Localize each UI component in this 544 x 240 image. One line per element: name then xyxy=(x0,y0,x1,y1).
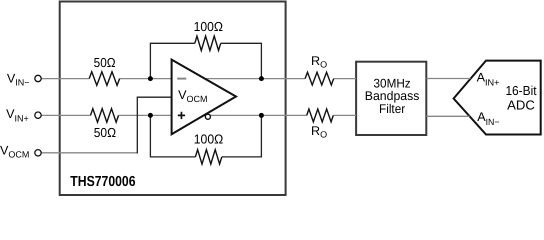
filter text 30MHz Bandpass Filter xyxy=(365,77,420,116)
wire VIN- input rail xyxy=(41,78,89,80)
label RO top xyxy=(311,54,327,69)
ADC text 16-Bit ADC xyxy=(505,83,536,113)
svg-text:100Ω: 100Ω xyxy=(194,19,224,34)
svg-text:16-Bit: 16-Bit xyxy=(505,83,536,98)
resistor RO bottom xyxy=(307,109,334,122)
label VIN- xyxy=(7,71,30,87)
op-amp plus input marker xyxy=(178,112,185,119)
resistor 100ohm bottom feedback xyxy=(195,150,221,164)
terminal VIN+ xyxy=(35,112,41,118)
wire VOCM input rail xyxy=(41,152,137,154)
wire top RO to filter xyxy=(334,78,356,80)
junction node bottom-right xyxy=(259,113,264,118)
terminal VIN- xyxy=(35,75,41,81)
amplifier block box THS770006 xyxy=(60,2,286,196)
wire VOCM riser to op-amp xyxy=(137,97,171,153)
wire VIN+ resistor to op-amp xyxy=(119,114,172,116)
ADC block outline xyxy=(454,61,541,135)
filter block box xyxy=(356,62,426,135)
wire bottom RO to filter xyxy=(333,114,356,116)
resistor 50ohm top xyxy=(89,72,119,86)
op-amp inverted output bubble xyxy=(205,114,210,119)
label VIN+ xyxy=(6,107,29,123)
svg-text:THS770006: THS770006 xyxy=(70,174,135,190)
label RO bottom xyxy=(311,124,327,139)
label 100ohm top xyxy=(194,19,224,34)
wire top feedback loop xyxy=(150,43,261,78)
label 50ohm bottom xyxy=(94,125,117,140)
label AIN+ xyxy=(477,70,500,87)
op-amp U1 fully differential amplifier triangle xyxy=(172,60,236,135)
label 100ohm bottom xyxy=(194,132,224,147)
junction node top-left xyxy=(148,76,153,81)
wire bottom feedback loop xyxy=(150,115,261,156)
resistor 100ohm top feedback xyxy=(195,36,221,50)
label VOCM xyxy=(0,144,29,160)
wire filter to ADC AIN+ xyxy=(426,78,470,80)
label THS770006 xyxy=(70,174,135,190)
wire VIN+ input rail xyxy=(41,114,91,116)
resistor 50ohm bottom xyxy=(91,109,119,123)
svg-text:50Ω: 50Ω xyxy=(94,55,116,70)
wire filter to ADC AIN- xyxy=(426,115,469,117)
label AIN- xyxy=(477,110,499,127)
wire bottom output rail xyxy=(210,114,306,116)
svg-text:ADC: ADC xyxy=(507,98,535,113)
junction node bottom-left xyxy=(148,113,153,118)
svg-text:100Ω: 100Ω xyxy=(194,132,224,147)
op-amp VOCM label xyxy=(178,88,207,104)
svg-text:Bandpass: Bandpass xyxy=(365,89,420,103)
junction node top-right xyxy=(259,76,264,81)
svg-text:Filter: Filter xyxy=(379,102,405,116)
label 50ohm top xyxy=(94,55,116,70)
resistor RO top xyxy=(305,72,334,85)
terminal VOCM xyxy=(35,150,41,156)
wire VIN- resistor to op-amp xyxy=(120,78,171,80)
op-amp minus input marker xyxy=(177,78,186,80)
wire top output rail xyxy=(206,78,305,80)
svg-text:50Ω: 50Ω xyxy=(94,125,117,140)
